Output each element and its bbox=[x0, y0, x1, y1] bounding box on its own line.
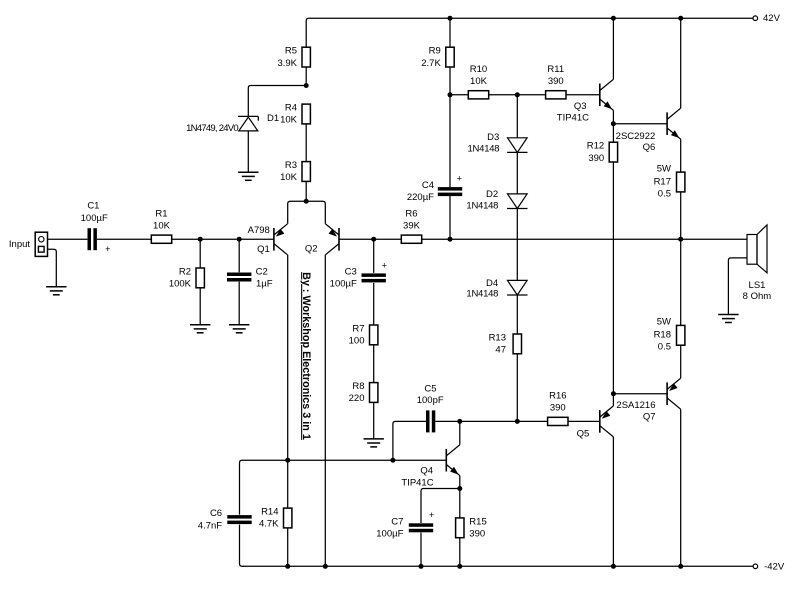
svg-text:42V: 42V bbox=[763, 13, 781, 24]
svg-text:R4: R4 bbox=[285, 103, 297, 114]
svg-text:R9: R9 bbox=[429, 46, 441, 57]
resistor R4 bbox=[280, 103, 310, 126]
svg-text:390: 390 bbox=[548, 76, 564, 87]
wire feedback line bbox=[240, 460, 447, 514]
node Q7-rail bbox=[678, 564, 683, 569]
node Q4 emitter bbox=[457, 486, 462, 491]
capacitor C4 bbox=[407, 173, 462, 203]
svg-text:1N4749, 24V0: 1N4749, 24V0 bbox=[186, 123, 238, 134]
wire input-C1 bbox=[48, 238, 88, 240]
svg-text:220: 220 bbox=[349, 393, 365, 404]
svg-text:390: 390 bbox=[550, 403, 566, 414]
node Q5-rail bbox=[611, 564, 616, 569]
svg-text:TIP41C: TIP41C bbox=[557, 112, 589, 123]
svg-text:4.7K: 4.7K bbox=[259, 519, 279, 530]
wire Q4 collector bbox=[459, 421, 461, 444]
wire C2-ground bbox=[238, 282, 240, 325]
wire Q6 emitter-R17 bbox=[680, 139, 682, 172]
wire Q7 collector bbox=[680, 409, 682, 566]
svg-text:5W: 5W bbox=[657, 317, 671, 328]
resistor R7 bbox=[349, 323, 378, 346]
node C7-rail bbox=[419, 564, 424, 569]
resistor R6 bbox=[401, 209, 421, 244]
wire node-C4 bbox=[449, 95, 451, 187]
wire node-C3 bbox=[373, 239, 375, 273]
wire R5-node bbox=[305, 67, 307, 86]
wire node-R11 bbox=[517, 94, 545, 96]
svg-text:A798: A798 bbox=[248, 225, 270, 236]
svg-text:100: 100 bbox=[349, 336, 365, 347]
svg-text:Q4: Q4 bbox=[420, 466, 433, 477]
svg-text:10K: 10K bbox=[153, 221, 171, 232]
svg-text:+: + bbox=[382, 260, 387, 270]
wire Q3 emitter-node bbox=[612, 110, 614, 123]
svg-text:Q3: Q3 bbox=[574, 101, 587, 112]
transistor Q1 bbox=[248, 224, 288, 255]
wire rail-R9 bbox=[449, 18, 451, 47]
wire Q2 collector bbox=[324, 255, 326, 567]
svg-text:0.5: 0.5 bbox=[658, 341, 671, 352]
wire R17-output bbox=[680, 192, 682, 239]
capacitor C5 bbox=[417, 383, 444, 432]
transistor Q3 bbox=[557, 79, 614, 123]
svg-text:2SC2922: 2SC2922 bbox=[616, 131, 656, 142]
wire R11-Q3 base bbox=[566, 94, 600, 96]
wire node-R6 bbox=[374, 238, 402, 240]
wire R4-R3 bbox=[305, 124, 307, 162]
svg-text:390: 390 bbox=[588, 153, 604, 164]
wire C7-rail bbox=[420, 533, 422, 567]
transistor Q4 bbox=[401, 445, 460, 489]
transistor Q6 bbox=[616, 108, 681, 153]
wire D4-R13 bbox=[516, 295, 518, 334]
svg-text:C1: C1 bbox=[87, 201, 99, 212]
diode D2 bbox=[466, 189, 527, 211]
svg-text:39K: 39K bbox=[403, 221, 421, 232]
ground (R2) bbox=[190, 325, 210, 333]
svg-text:C7: C7 bbox=[391, 516, 403, 527]
wire R9-node bbox=[449, 67, 451, 95]
capacitor C2 bbox=[227, 266, 273, 289]
svg-text:R6: R6 bbox=[405, 209, 417, 220]
resistor R15 bbox=[456, 516, 487, 539]
capacitor C7 bbox=[376, 510, 434, 540]
ground (input) bbox=[46, 287, 66, 295]
wire node-R2 bbox=[199, 239, 201, 268]
svg-text:+: + bbox=[429, 510, 434, 520]
resistor R2 bbox=[169, 266, 205, 289]
wire R14-rail bbox=[287, 528, 289, 566]
svg-text:390: 390 bbox=[469, 529, 485, 540]
wire Q2 base-C3 node bbox=[339, 238, 374, 240]
svg-text:1N4148: 1N4148 bbox=[466, 200, 498, 211]
node rail-R9 bbox=[448, 16, 453, 21]
svg-text:By : Workshop Electronics 3 in: By : Workshop Electronics 3 in 1 bbox=[300, 272, 312, 440]
node C5/Q4 base bbox=[390, 458, 395, 463]
wire C1-R1 bbox=[97, 238, 151, 240]
svg-text:100K: 100K bbox=[169, 279, 192, 290]
transistor Q5 bbox=[577, 406, 614, 440]
transistor Q2 bbox=[305, 224, 339, 255]
svg-text:10K: 10K bbox=[470, 76, 488, 87]
wire node-R14 bbox=[287, 460, 289, 508]
wire D3 top bbox=[516, 95, 518, 138]
svg-text:100µF: 100µF bbox=[330, 278, 357, 289]
wire C6-rail bbox=[240, 525, 245, 567]
resistor R5 bbox=[277, 46, 310, 69]
capacitor C1 bbox=[81, 201, 111, 255]
svg-text:220µF: 220µF bbox=[407, 192, 434, 203]
svg-text:R3: R3 bbox=[285, 160, 297, 171]
svg-text:LS1: LS1 bbox=[749, 280, 766, 291]
svg-text:Q7: Q7 bbox=[643, 412, 656, 423]
wire speaker-ground bbox=[728, 258, 747, 315]
svg-text:D4: D4 bbox=[486, 278, 498, 289]
resistor R8 bbox=[349, 381, 378, 404]
wire R3-emitter node bbox=[305, 181, 307, 201]
resistor R1 bbox=[151, 209, 171, 244]
wire R12-node bbox=[612, 162, 614, 394]
resistor R9 bbox=[421, 46, 454, 69]
svg-text:Q2: Q2 bbox=[305, 244, 318, 255]
wire Q5 collector-rail bbox=[612, 437, 614, 566]
wire D2-D4 bbox=[516, 209, 518, 281]
svg-text:C4: C4 bbox=[422, 180, 434, 191]
svg-text:D3: D3 bbox=[487, 132, 499, 143]
svg-text:R14: R14 bbox=[261, 507, 278, 518]
svg-text:C5: C5 bbox=[424, 383, 436, 394]
transistor Q7 bbox=[616, 378, 680, 423]
svg-text:1N4148: 1N4148 bbox=[468, 143, 500, 154]
ground (speaker) bbox=[718, 315, 738, 323]
node C3 bbox=[371, 237, 376, 242]
wire R10-node bbox=[489, 94, 518, 96]
node R2 bbox=[198, 237, 203, 242]
svg-text:Q6: Q6 bbox=[643, 142, 656, 153]
svg-text:47: 47 bbox=[495, 345, 506, 356]
node diff pair emitters bbox=[304, 199, 309, 204]
svg-text:R18: R18 bbox=[654, 329, 671, 340]
svg-text:+: + bbox=[105, 244, 110, 254]
node Q4 collector bbox=[457, 419, 462, 424]
terminal +42V bbox=[753, 13, 781, 24]
wire R1-Q1 base bbox=[172, 238, 274, 240]
wire node-C7 bbox=[421, 489, 460, 524]
wire node-D1 bbox=[248, 86, 306, 117]
node R15-rail bbox=[457, 564, 462, 569]
wire D3-D2 bbox=[516, 152, 518, 194]
capacitor C3 bbox=[330, 260, 387, 289]
wire Q4 emitter bbox=[459, 476, 461, 489]
svg-text:R16: R16 bbox=[549, 391, 566, 402]
capacitor C6 bbox=[198, 508, 252, 531]
node output bbox=[678, 237, 683, 242]
wire Q4coll node-R13 node bbox=[460, 420, 518, 422]
resistor R18 bbox=[654, 317, 685, 353]
svg-text:R5: R5 bbox=[285, 46, 297, 57]
svg-text:5W: 5W bbox=[657, 164, 671, 175]
node R14-rail bbox=[285, 564, 290, 569]
node Q1 coll/R14 bbox=[285, 458, 290, 463]
wire emitter rail bbox=[288, 201, 326, 224]
svg-text:Q1: Q1 bbox=[257, 244, 270, 255]
wire D1-ground bbox=[247, 131, 249, 172]
wire output line bbox=[450, 238, 681, 240]
wire node-R15 bbox=[459, 489, 461, 518]
svg-text:D1: D1 bbox=[267, 113, 279, 124]
wire C4-node bbox=[449, 196, 451, 239]
resistor R17 bbox=[654, 164, 685, 200]
svg-text:R2: R2 bbox=[179, 266, 191, 277]
svg-text:C3: C3 bbox=[345, 267, 357, 278]
wire +42V rail bbox=[306, 18, 753, 47]
wire node-R10 bbox=[450, 94, 468, 96]
wire node-Q6 base bbox=[613, 123, 667, 125]
svg-text:0.5: 0.5 bbox=[658, 189, 671, 200]
svg-text:C2: C2 bbox=[256, 266, 268, 277]
wire R15-rail bbox=[459, 538, 461, 567]
node rail-Q3 collector bbox=[611, 16, 616, 21]
wire R7-R8 bbox=[373, 345, 375, 383]
node R13/C5 line bbox=[515, 419, 520, 424]
resistor R13 bbox=[489, 332, 522, 355]
diode D3 bbox=[468, 132, 528, 154]
wire R18-Q7 emitter bbox=[680, 345, 682, 378]
svg-text:R13: R13 bbox=[489, 332, 506, 343]
node C2 bbox=[237, 237, 242, 242]
resistor R14 bbox=[259, 507, 292, 530]
resistor R11 bbox=[546, 64, 566, 99]
resistor R10 bbox=[468, 64, 488, 99]
wire C3-R7 bbox=[373, 283, 375, 325]
node R9/R10 bbox=[448, 92, 453, 97]
resistor R3 bbox=[280, 160, 310, 183]
node rail-Q6 collector bbox=[678, 16, 683, 21]
svg-text:1N4148: 1N4148 bbox=[466, 288, 498, 299]
node R5/R4/D1 bbox=[304, 83, 309, 88]
wire R2-ground bbox=[199, 288, 201, 325]
wire node-R16 bbox=[517, 420, 547, 422]
svg-text:Q5: Q5 bbox=[577, 428, 590, 439]
wire R6-node bbox=[422, 238, 450, 240]
svg-text:-42V: -42V bbox=[764, 562, 785, 573]
svg-text:10K: 10K bbox=[280, 115, 298, 126]
svg-text:Input: Input bbox=[9, 239, 30, 250]
wire C5 left leg bbox=[393, 421, 426, 460]
svg-text:100pF: 100pF bbox=[417, 395, 444, 406]
svg-text:1µF: 1µF bbox=[256, 279, 273, 290]
resistor R16 bbox=[548, 391, 568, 426]
node Q5/Q7 base bbox=[611, 391, 616, 396]
wire Q5 emitter-node bbox=[612, 394, 614, 406]
svg-text:100µF: 100µF bbox=[376, 529, 403, 540]
wire output-speaker bbox=[681, 238, 747, 240]
svg-text:10K: 10K bbox=[280, 172, 298, 183]
wire Q3 collector bbox=[612, 18, 614, 79]
svg-text:R12: R12 bbox=[587, 141, 604, 152]
wire R16-Q5 base bbox=[568, 420, 600, 422]
svg-text:R7: R7 bbox=[352, 323, 364, 334]
wire input pin2-ground bbox=[48, 249, 57, 287]
wire Q6 collector bbox=[680, 18, 682, 108]
terminal -42V bbox=[753, 562, 785, 573]
svg-text:R8: R8 bbox=[352, 381, 364, 392]
svg-text:R11: R11 bbox=[547, 64, 564, 75]
diode D4 bbox=[466, 278, 527, 299]
svg-text:TIP41C: TIP41C bbox=[401, 478, 433, 489]
wire Q1 collector bbox=[287, 255, 289, 460]
svg-text:2.7K: 2.7K bbox=[421, 58, 441, 69]
ground (C2) bbox=[229, 325, 249, 333]
svg-text:+: + bbox=[457, 173, 462, 183]
zener diode D1 bbox=[186, 113, 279, 134]
wire output-R18 bbox=[680, 239, 682, 325]
resistor R12 bbox=[587, 141, 618, 164]
svg-text:4.7nF: 4.7nF bbox=[198, 520, 222, 531]
wire node-R12 bbox=[612, 124, 614, 143]
svg-text:D2: D2 bbox=[486, 189, 498, 200]
ground (R8) bbox=[364, 439, 384, 447]
speaker LS1 bbox=[743, 225, 772, 302]
svg-text:R1: R1 bbox=[155, 209, 167, 220]
svg-text:3.9K: 3.9K bbox=[277, 58, 297, 69]
svg-text:R17: R17 bbox=[654, 176, 671, 187]
svg-text:8 Ohm: 8 Ohm bbox=[743, 291, 772, 302]
svg-text:2SA1216: 2SA1216 bbox=[616, 400, 655, 411]
svg-text:C6: C6 bbox=[210, 508, 222, 519]
node Q3/R12/Q6 bbox=[611, 121, 616, 126]
connector Input bbox=[9, 232, 48, 256]
wire R13-node bbox=[516, 354, 518, 422]
wire node-Q7 base bbox=[613, 393, 667, 395]
svg-text:R10: R10 bbox=[470, 64, 487, 75]
svg-text:R15: R15 bbox=[469, 516, 486, 527]
node R10/D3 bbox=[515, 92, 520, 97]
ground (D1) bbox=[238, 172, 258, 180]
wire C5-node bbox=[435, 420, 460, 422]
wire -42V rail bbox=[243, 565, 753, 567]
wire node-C2 bbox=[238, 239, 240, 272]
svg-text:100µF: 100µF bbox=[81, 213, 108, 224]
node R6/C4/output bbox=[448, 237, 453, 242]
wire R8-ground bbox=[373, 402, 375, 439]
node Q2 coll-rail bbox=[323, 564, 328, 569]
